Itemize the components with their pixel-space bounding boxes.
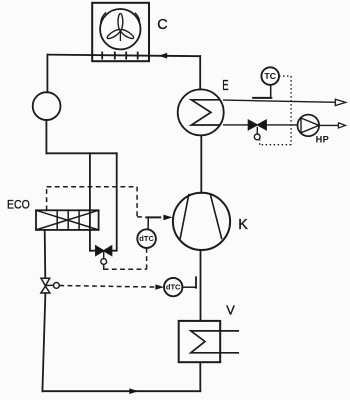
hot water supply line from E xyxy=(224,100,336,102)
TC sensor bar on supply line xyxy=(253,97,271,99)
injection valve actuator stem xyxy=(103,251,105,259)
injection vapor dashed stub to sensor bar xyxy=(137,216,145,218)
condenser fan box C xyxy=(92,3,149,61)
capillary below bulb xyxy=(103,264,105,269)
TC sensor stem xyxy=(270,85,272,98)
pump triangle xyxy=(301,118,319,133)
TC dotted control line left xyxy=(260,144,291,146)
ECO plate line 2 xyxy=(67,210,69,230)
wire: receiver down to liquid header xyxy=(45,120,47,153)
ECO diagonal 1 xyxy=(36,210,99,230)
TC dotted control line right xyxy=(279,75,291,77)
wire: up into evaporator V bottom xyxy=(199,362,201,391)
TC dotted control line up to valve bulb xyxy=(259,140,261,145)
arrow into compressor side port xyxy=(163,215,172,221)
flow arrow into condenser (points left) xyxy=(159,53,167,59)
injection line sensor bar xyxy=(146,216,160,218)
wire: bottom run to evaporator xyxy=(42,390,200,392)
injection vapor dashed line: horizontal run xyxy=(47,186,138,188)
wire: ECO liquid outlet down to main expansion valve xyxy=(44,230,47,278)
svg-text:V: V xyxy=(226,303,235,318)
dTC1 sensor stem up to injection line xyxy=(147,218,149,230)
dTC1 superheat controller circle xyxy=(137,229,156,248)
compressor interior line left xyxy=(180,195,189,239)
wire: discharge from K top to E bottom xyxy=(200,135,202,192)
condenser coil tick 1 xyxy=(101,52,103,58)
wire: suction from V top to compressor K xyxy=(200,250,202,321)
svg-text:dTC: dTC xyxy=(166,283,181,292)
main expansion valve lower triangle xyxy=(41,286,50,293)
condenser coil tick 4 xyxy=(137,52,139,58)
dTC2 superheat controller circle xyxy=(164,278,182,296)
wire: hot gas line from E up and left into condenser C xyxy=(47,55,200,57)
main valve bulb stem xyxy=(46,284,54,286)
fan circle xyxy=(100,9,140,49)
injection expansion valve (filled bowtie) xyxy=(96,246,104,256)
pump HP circle xyxy=(298,115,320,137)
arrow into dTC2 xyxy=(155,284,164,289)
wire: liquid into ECO top, through ECO, to injection valve elbow xyxy=(90,153,96,250)
condenser coil tick 3 xyxy=(125,52,127,58)
open arrow hot water supply xyxy=(335,99,345,105)
fan hub stem xyxy=(119,30,121,41)
capillary dashed run to dTC1 xyxy=(104,268,147,270)
wire: main valve outlet down left side xyxy=(42,293,45,391)
fan shroud crescent left xyxy=(101,13,106,23)
svg-text:dTC: dTC xyxy=(139,234,154,243)
condenser coil tick 2 xyxy=(114,52,116,58)
compressor K circle xyxy=(173,193,230,250)
wire: valve to pump HP xyxy=(266,124,297,126)
wire: E top up to condenser line corner xyxy=(199,56,201,89)
TC dotted control line down xyxy=(290,76,292,145)
flow arrow on bottom run (points right) xyxy=(129,388,138,394)
TC valve actuator stem xyxy=(256,128,258,135)
compressor interior line right xyxy=(210,195,221,239)
V coil sigma with secondary connections xyxy=(191,331,238,353)
dashed riser up to dTC1 xyxy=(146,248,148,269)
ECO plate line 3 xyxy=(78,210,80,230)
TC valve actuator circle xyxy=(254,134,260,140)
svg-text:HP: HP xyxy=(316,134,330,144)
TC control valve (filled bowtie) xyxy=(248,120,257,130)
receiver circle xyxy=(33,92,61,120)
fan blade lower-left xyxy=(106,28,121,40)
svg-text:K: K xyxy=(238,217,248,233)
wire: liquid header horizontal xyxy=(46,152,116,154)
hot water return line from E to valve xyxy=(224,124,249,126)
svg-text:C: C xyxy=(157,17,167,33)
main expansion valve (open bowtie, vertical) upper triangle xyxy=(41,278,50,286)
injection vapor dashed line: ECO top-left up xyxy=(46,187,48,211)
small open arrow at pump outlet xyxy=(338,123,345,128)
svg-text:ECO: ECO xyxy=(7,198,30,212)
ECO diagonal 2 xyxy=(36,210,99,230)
economizer ECO plate heat exchanger body xyxy=(36,210,99,230)
evaporator V box xyxy=(179,321,221,362)
main valve bulb xyxy=(54,283,60,289)
wire: condenser outlet down to receiver xyxy=(46,55,48,93)
fan blade up xyxy=(118,14,123,30)
injection valve bulb circle xyxy=(101,259,107,265)
fan blade lower-right xyxy=(119,28,134,40)
control dashed line to dTC2 xyxy=(59,286,157,288)
suction line sensor bar xyxy=(195,277,197,288)
TC controller circle xyxy=(261,67,279,85)
dTC2 sensor lead to suction pipe xyxy=(182,286,196,288)
E coil sigma xyxy=(191,100,219,125)
injection vapor dashed line: drop to compressor port level xyxy=(136,187,138,217)
wire: liquid tap down to injection expansion valve right port xyxy=(112,153,117,250)
fan shroud crescent right xyxy=(135,13,139,23)
pump outlet line xyxy=(319,124,339,126)
svg-text:TC: TC xyxy=(264,72,276,81)
desuperheater E circle xyxy=(178,89,224,135)
ECO plate line 1 xyxy=(56,210,58,230)
svg-text:E: E xyxy=(222,78,228,94)
